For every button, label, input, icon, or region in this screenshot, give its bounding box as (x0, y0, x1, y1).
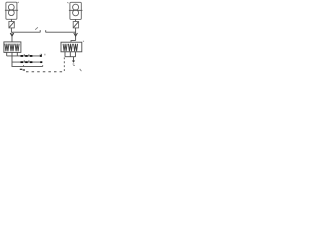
step contact row A wire (7, 55, 40, 57)
small mark above row A (39, 53, 42, 56)
disconnector blade (open) (35, 27, 38, 29)
wire S1 to bus (10, 28, 12, 32)
right resistor bank box R2 (61, 42, 82, 52)
R1 bottom stub right (16, 52, 18, 56)
bus wire right segment (46, 31, 76, 33)
small dash below arrow 2 (73, 64, 75, 66)
R2 zigzag element 1 (63, 44, 67, 51)
row A contact tick 2 (28, 54, 30, 56)
bottom return wire row C (12, 65, 43, 67)
wire S2 to bus (75, 28, 77, 32)
transformer T1 enclosure box (6, 2, 17, 19)
transformer T2 winding circle lower (73, 10, 79, 16)
row B contact pad 1 (21, 61, 24, 63)
background (0, 0, 94, 82)
tick label at T1 top right (18, 2, 19, 3)
row A end pad (40, 55, 42, 57)
row B contact pad 2 (25, 61, 28, 63)
row B contact pad 3 (30, 61, 33, 63)
stray diagonal mark bottom right (80, 69, 82, 71)
transformer T1 mid tap line (5, 9, 18, 11)
tick label at T2 top left (67, 2, 68, 3)
switch S1 box (9, 22, 14, 28)
small dash below arrow 1 (73, 63, 75, 65)
row A contact pad 1 (21, 55, 24, 57)
transformer T1 winding circle upper (8, 4, 14, 10)
wire T2 to switch S2 (75, 19, 77, 21)
row A contact pad 3 (30, 55, 33, 57)
bus left segment end tick (39, 30, 41, 32)
switch S1 blade diagonal (9, 22, 14, 28)
R2 zigzag element 3 (74, 44, 78, 51)
drop wire to right resistor bank (75, 32, 77, 40)
bus wire left segment (11, 31, 40, 33)
R2 bottom stub 1 (64, 52, 66, 57)
output arrow head (72, 61, 75, 63)
switch S2 blade diagonal (73, 22, 78, 28)
R2 zigzag element 2 (68, 44, 72, 51)
transformer T2 winding circle upper (73, 4, 79, 10)
row A contact pad 2 (25, 55, 28, 57)
R1 zigzag element 1 (5, 44, 9, 52)
mechanical linkage dashed horizontal (26, 71, 64, 73)
row A end tick (41, 54, 43, 55)
linkage pad D1 (20, 69, 23, 70)
row C junction tick (23, 65, 25, 66)
step contact row B wire (12, 61, 40, 63)
transformer T2 enclosure box (70, 2, 81, 19)
bus right segment start tick (45, 30, 47, 32)
current arrow on right drop (74, 33, 78, 36)
row A contact tick 1 (23, 54, 25, 56)
drop wire to left resistor bank (11, 32, 13, 42)
R1 bottom stub centre long (11, 52, 13, 66)
current arrow on left drop (10, 33, 14, 36)
R2 bottom stub 3 (75, 52, 77, 57)
row B contact tick 1 (23, 60, 25, 62)
R1 bottom stub left (6, 52, 8, 56)
output arrow stem (73, 57, 75, 61)
tick right of R2 top (82, 41, 85, 42)
switch S2 box (73, 22, 78, 28)
jog wire into right resistor box (71, 41, 76, 43)
R1 zigzag element 3 (15, 44, 19, 52)
R2 bottom stub 2 (69, 52, 71, 57)
row C end tick (42, 65, 44, 66)
wire T1 to switch S1 (10, 19, 12, 21)
tick near row A end (44, 54, 46, 56)
transformer T2 mid tap line (69, 9, 83, 11)
row B contact tick 2 (28, 60, 30, 62)
row B end pad (40, 61, 42, 63)
transformer T1 winding circle lower (8, 10, 14, 16)
R2 collector bar (65, 56, 76, 58)
R1 zigzag element 2 (10, 44, 14, 52)
left resistor bank box R1 (4, 42, 21, 53)
linkage pad D2 (23, 69, 25, 70)
dashed drop from R2 bar (63, 57, 65, 71)
